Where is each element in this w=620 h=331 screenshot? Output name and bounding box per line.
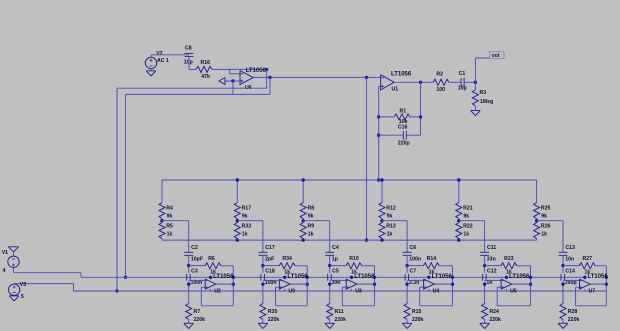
svg-text:R28: R28 [568,309,578,315]
svg-text:9k: 9k [463,213,469,219]
svg-text:AC 1: AC 1 [157,58,169,64]
svg-text:U9: U9 [288,289,295,295]
svg-text:1k: 1k [463,231,469,237]
svg-text:1k: 1k [541,231,547,237]
svg-text:U1: U1 [392,87,399,93]
svg-text:C14: C14 [565,268,575,274]
svg-text:9k: 9k [242,213,248,219]
svg-text:30n: 30n [332,280,341,286]
svg-text:R22: R22 [463,223,473,229]
svg-text:9k: 9k [167,213,173,219]
svg-text:R25: R25 [541,205,551,211]
svg-text:R21: R21 [463,205,473,211]
svg-text:R12: R12 [386,205,396,211]
svg-text:LT1056: LT1056 [391,72,412,78]
svg-text:1k: 1k [308,231,314,237]
svg-text:R35: R35 [268,309,278,315]
svg-text:C12: C12 [487,268,497,274]
svg-text:1k: 1k [387,231,393,237]
svg-text:U2: U2 [214,289,221,295]
svg-text:9k: 9k [308,213,314,219]
svg-text:33n: 33n [487,257,496,263]
svg-text:R34: R34 [282,256,292,262]
svg-text:V1: V1 [2,250,8,256]
svg-text:10p: 10p [458,86,467,92]
svg-text:10n: 10n [565,257,574,263]
svg-text:out: out [492,53,500,59]
svg-text:R26: R26 [541,223,551,229]
svg-text:5: 5 [21,294,24,300]
svg-text:R33: R33 [242,223,252,229]
svg-text:1p: 1p [332,257,338,263]
svg-text:220k: 220k [412,317,424,323]
svg-text:220k: 220k [568,317,580,323]
svg-text:R2: R2 [436,71,443,77]
svg-text:R27: R27 [583,256,593,262]
svg-text:1k: 1k [167,231,173,237]
svg-text:1Meg: 1Meg [480,99,493,105]
svg-text:220k: 220k [489,317,501,323]
svg-text:C2: C2 [191,245,198,251]
svg-text:R8: R8 [308,205,315,211]
svg-text:10p: 10p [184,60,193,66]
svg-text:C7: C7 [410,268,417,274]
svg-text:LT1056: LT1056 [287,274,308,280]
svg-text:100: 100 [436,87,445,93]
svg-text:LT1056: LT1056 [213,274,234,280]
svg-text:R9: R9 [308,223,315,229]
svg-text:C18: C18 [265,268,275,274]
svg-text:100n: 100n [409,257,421,263]
svg-text:V2: V2 [156,51,162,57]
svg-text:R6: R6 [208,256,215,262]
svg-text:R15: R15 [412,309,422,315]
svg-text:C17: C17 [265,245,275,251]
svg-text:220k: 220k [194,317,206,323]
svg-text:R10: R10 [349,256,359,262]
svg-text:220k: 220k [335,317,347,323]
svg-text:R16: R16 [201,60,211,66]
svg-text:LT1056: LT1056 [588,274,609,280]
svg-text:100n: 100n [191,280,203,286]
svg-text:V3: V3 [20,282,26,288]
svg-text:3.3n: 3.3n [409,280,419,286]
svg-text:390p: 390p [565,280,577,286]
svg-text:1k: 1k [242,231,248,237]
svg-text:U5: U5 [510,289,517,295]
svg-text:220p: 220p [398,140,410,146]
svg-text:LT1056: LT1056 [246,68,267,74]
svg-text:C13: C13 [565,245,575,251]
svg-text:R11: R11 [335,309,344,315]
svg-text:R1: R1 [400,109,407,115]
svg-text:4: 4 [3,268,6,274]
svg-text:U7: U7 [589,289,596,295]
svg-text:10pF: 10pF [191,257,203,263]
svg-text:R17: R17 [242,205,252,211]
svg-text:100n: 100n [265,280,277,286]
svg-text:R13: R13 [386,223,396,229]
svg-text:C5: C5 [332,268,339,274]
svg-text:LT1056: LT1056 [432,274,453,280]
svg-text:C3: C3 [191,268,198,274]
svg-text:1n: 1n [486,280,492,286]
svg-text:R3: R3 [480,90,487,96]
svg-text:2pF: 2pF [265,257,274,263]
svg-text:LT1056: LT1056 [509,274,530,280]
svg-text:9k: 9k [541,213,547,219]
svg-text:C6: C6 [410,245,417,251]
svg-text:C1: C1 [459,71,466,77]
svg-text:C8: C8 [185,45,192,51]
svg-text:R5: R5 [166,223,173,229]
svg-text:R7: R7 [194,309,201,315]
svg-text:R23: R23 [504,256,514,262]
svg-text:R24: R24 [489,309,499,315]
svg-text:47k: 47k [201,74,210,80]
svg-text:LT1056: LT1056 [354,274,375,280]
svg-text:9k: 9k [387,213,393,219]
svg-text:C4: C4 [332,245,339,251]
svg-text:U4: U4 [433,289,440,295]
svg-text:U3: U3 [355,289,362,295]
svg-text:R4: R4 [166,205,173,211]
svg-text:R14: R14 [427,256,437,262]
svg-text:220k: 220k [268,317,280,323]
svg-text:C11: C11 [487,245,496,251]
svg-text:C16: C16 [398,125,408,131]
